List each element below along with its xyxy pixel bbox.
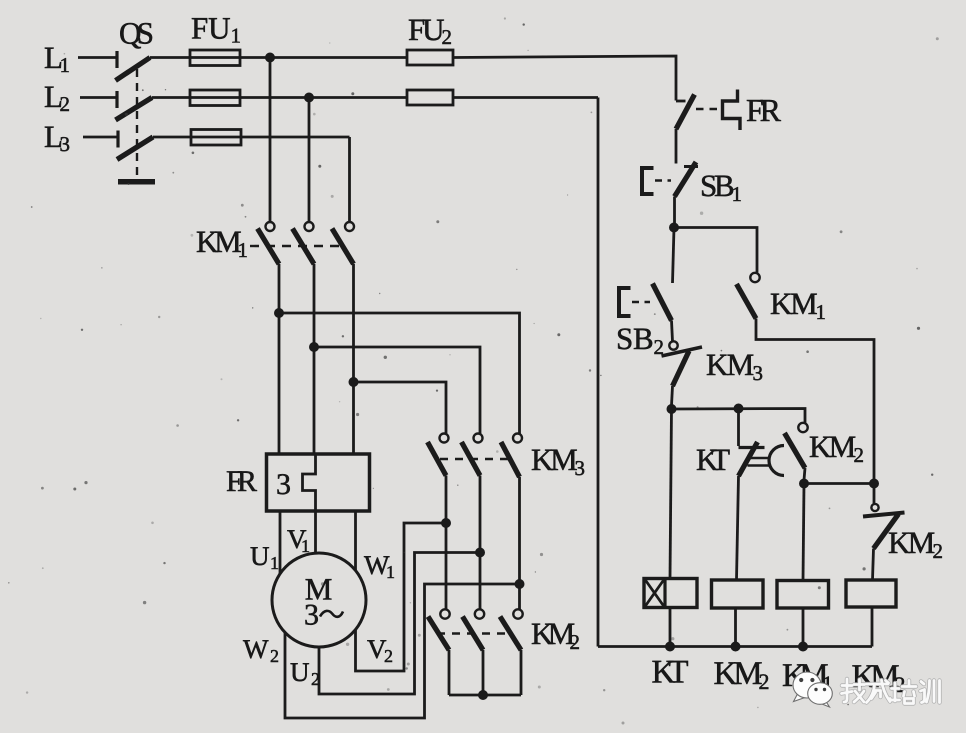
wire L2 to FU2 [152, 96, 407, 99]
contactor KM2 NC interlock crossbar [863, 513, 905, 517]
wire node B horizontal [672, 409, 806, 424]
wire node C to KT contact [737, 409, 740, 447]
contactor KM2 main contact 1 blade [428, 617, 449, 651]
contactor KM1 main contact 2 blade [293, 229, 315, 265]
contactor KM3 NC interlock blade [673, 351, 690, 386]
coil KM1 body [777, 581, 829, 609]
thermal relay FR heater element [303, 455, 316, 511]
contactor KM2 aux NO blade [785, 433, 806, 468]
svg-text:3: 3 [304, 599, 319, 632]
switch QS pole 3 blade [117, 137, 153, 160]
contactor KM1 main contact 3 terminal [345, 222, 354, 231]
contactor KM1 aux NO terminal [750, 273, 759, 282]
wire phase C below KM1 [352, 264, 355, 455]
pushbutton SB2 linkage dashed [632, 301, 650, 303]
wire L1 drop [269, 58, 272, 223]
watermark wechat icon [793, 672, 832, 707]
svg-text:FR: FR [746, 92, 782, 128]
wire coil KM1 bottom [802, 608, 805, 647]
contactor KM2 main contact 2 terminal [475, 609, 484, 618]
wire star point bus [449, 694, 521, 697]
coil KM2 body [712, 580, 764, 608]
thermal relay FR NC contact fixed bar [676, 100, 686, 103]
thermal relay FR heater box [267, 454, 370, 511]
wire L1 to control circuit [453, 56, 676, 101]
wire V1 motor lead [314, 511, 317, 553]
contactor KM2 main contact 1 terminal [440, 609, 449, 618]
wire coil KM2 bottom [734, 608, 737, 647]
contactor KM3 main contact 1 blade [428, 442, 447, 476]
contactor KM1 main contact 1 terminal [266, 222, 275, 231]
contactor KM2 NC interlock terminal [871, 504, 878, 511]
wire W2 to motor [285, 584, 520, 718]
thermal relay FR NC contact blade [676, 95, 695, 130]
contactor KM3 main contact 2 blade [462, 442, 481, 476]
wire V2 to motor [356, 523, 447, 671]
wire KM3 contact 2 down [479, 476, 482, 610]
wire control return vertical [597, 98, 600, 647]
svg-text:3: 3 [276, 468, 291, 501]
watermark text 技成培训 [842, 679, 940, 704]
pushbutton SB1 actuator bracket [642, 166, 654, 196]
coil KT body [644, 579, 697, 608]
contactor KM3 main contact 1 terminal [440, 434, 449, 443]
wire L2 drop [308, 98, 311, 223]
node C junction KT branch [734, 404, 744, 414]
wire L1 to FU2 [150, 56, 407, 59]
wire L3 [153, 136, 350, 139]
wire bottom return bus [598, 645, 872, 648]
fuse FU1 element 2 [190, 90, 240, 106]
svg-text:KT: KT [652, 655, 689, 691]
wire coil KT bottom [669, 608, 672, 647]
thermal relay FR actuator symbol [723, 90, 741, 131]
switch QS handle bar [118, 179, 155, 185]
contactor KM1 main contact 1 blade [258, 229, 280, 265]
wire node D to node E [804, 482, 874, 485]
wire KM2 contact 1 down [448, 650, 451, 695]
coil KM2b body [846, 580, 896, 607]
pushbutton SB1 NC crossbar [684, 165, 698, 168]
pushbutton SB1 NC blade [675, 162, 697, 197]
fuse FU1 element 1 [190, 50, 240, 66]
switch QS pole 2 blade [116, 98, 153, 121]
contactor KM2 main contact 3 blade [500, 617, 521, 651]
contactor KM2 main contact 3 terminal [513, 609, 522, 618]
coil KT X mark [645, 580, 664, 607]
switch QS pole 1 blade [116, 58, 151, 81]
wire KM3 contact 1 down [445, 476, 448, 610]
svg-text:QS: QS [119, 16, 154, 51]
contactor KM1 main contact 2 terminal [305, 222, 314, 231]
wire KM3 interlock to node B [672, 386, 673, 406]
wire KM3 contact 3 down [518, 477, 521, 610]
pushbutton SB2 NO blade [653, 284, 672, 321]
pushbutton SB2 actuator bracket [619, 286, 631, 318]
wire L1 lead [78, 56, 117, 59]
wire L2 to control return [453, 96, 598, 99]
switch QS pole 1 fixed contact [115, 51, 118, 68]
contactor KM3 NC interlock terminal [669, 341, 677, 349]
wire L3 drop [348, 137, 351, 222]
node L1 junction [265, 53, 275, 63]
wire U1 motor lead [279, 511, 282, 574]
switch QS linkage dashed [136, 69, 138, 177]
thermal relay FR linkage dashed [696, 108, 721, 110]
node U2 junction [475, 548, 485, 558]
contactor KM1 linkage dashed [250, 245, 343, 247]
fuse FU1 element 3 [191, 130, 241, 146]
wire phase A below KM1 [278, 264, 281, 455]
wire KM1 aux to right branch [756, 319, 874, 505]
svg-text:KM1: KM1 [770, 286, 826, 324]
wire node D to coil KM1 [803, 484, 804, 581]
wire phase B below KM1 [313, 264, 316, 455]
wire phase A to KM3 contact 3 [279, 313, 520, 434]
wire KM2 contact 3 down [520, 650, 523, 695]
node B junction [667, 404, 677, 414]
node bus KT [665, 642, 675, 652]
wire coil KM2b bottom [871, 607, 874, 647]
switch QS pole 3 fixed contact [116, 131, 119, 148]
contactor KM2 main contact 2 blade [463, 617, 484, 651]
wire FR to SB1 [675, 129, 678, 164]
svg-text:KM2: KM2 [531, 616, 580, 654]
svg-text:KT: KT [696, 442, 730, 477]
contactor KM1 aux NO blade [737, 284, 757, 319]
contactor KM2 NC interlock blade [874, 514, 899, 549]
svg-text:KM3: KM3 [531, 442, 585, 480]
wire KM2 NC to coil KM2b [873, 549, 874, 581]
wire U2 to motor [319, 553, 480, 695]
contactor KM2 aux NO terminal [798, 423, 807, 432]
node V2 junction [441, 518, 451, 528]
svg-text:KM1: KM1 [196, 224, 248, 262]
node star point [478, 690, 488, 700]
contactor KM3 main contact 3 terminal [513, 434, 522, 443]
node L2 junction [304, 93, 314, 103]
time relay KT delay tick 1 [748, 457, 771, 459]
node phase A tap [274, 308, 284, 318]
wire SB2 to KM3 interlock [672, 321, 673, 342]
wire node A to KM1 aux branch [674, 228, 757, 273]
wire KM2 contact 2 down [482, 650, 485, 695]
wire node B to coil KT [670, 409, 672, 579]
wire L3 lead [83, 136, 118, 139]
wire node A to SB2 [673, 228, 675, 284]
wire phase B to KM3 contact 2 [314, 347, 480, 434]
time relay KT delay arc [769, 446, 784, 476]
node phase C tap [349, 377, 359, 387]
switch QS pole 2 fixed contact [115, 91, 118, 108]
contactor KM3 main contact 2 terminal [474, 434, 483, 443]
fuse FU2 element 1 [407, 50, 453, 65]
wire KT contact to coil KM2 [737, 476, 739, 580]
time relay KT contact blade [739, 442, 758, 476]
time relay KT contact fixed bar [739, 446, 765, 449]
contactor KM3 main contact 3 blade [501, 442, 520, 477]
svg-text:KM2: KM2 [809, 429, 864, 467]
node D junction [799, 479, 809, 489]
wire SB1 to node A [673, 197, 676, 228]
node A junction [669, 223, 679, 233]
time relay KT delay tick 2 [748, 464, 771, 466]
coil KT divider [663, 579, 666, 608]
pushbutton SB1 linkage dashed [655, 179, 671, 181]
wire L2 lead [80, 96, 117, 99]
node bus KM2 [731, 642, 741, 652]
node W2 junction [515, 579, 525, 589]
wire KM2 aux to node D [804, 468, 805, 480]
wire W1 motor lead [354, 511, 357, 570]
node E junction [869, 479, 879, 489]
svg-text:FR: FR [226, 465, 257, 498]
node bus KM1 [798, 642, 808, 652]
svg-text:KM2: KM2 [888, 525, 943, 563]
contactor KM1 main contact 3 blade [332, 229, 354, 265]
motor M circle [272, 553, 366, 647]
node phase B tap [309, 342, 319, 352]
contactor KM3 linkage dashed [440, 458, 508, 460]
wire phase C to KM3 contact 1 [354, 382, 447, 434]
contactor KM2 linkage dashed [437, 632, 505, 634]
fuse FU2 element 2 [407, 90, 453, 105]
svg-text:KM2: KM2 [714, 656, 770, 694]
contactor KM3 NC interlock crossbar [662, 347, 703, 356]
